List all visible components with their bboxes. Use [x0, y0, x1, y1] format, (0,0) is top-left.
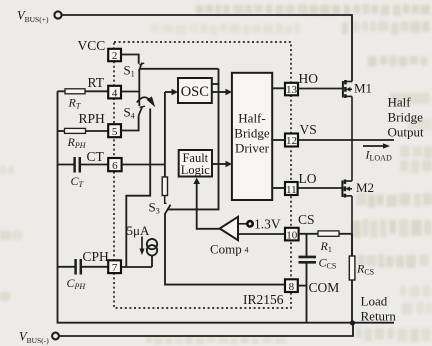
svg-text:5: 5: [112, 126, 118, 138]
pin 8 COM: [285, 279, 298, 293]
pin 7 CPH: [108, 260, 121, 274]
svg-text:8: 8: [289, 281, 295, 293]
svg-text:11: 11: [286, 184, 297, 196]
pin 10 CS: [285, 228, 299, 242]
transistor M2: [342, 140, 352, 256]
wire pin2 to S1: [121, 55, 139, 64]
junction load return: [350, 320, 355, 325]
svg-text:6: 6: [112, 160, 118, 172]
resistor RCS: [349, 234, 355, 323]
svg-text:M1: M1: [354, 81, 372, 96]
wire ILOAD arrow: [363, 143, 390, 148]
svg-text:VCC: VCC: [78, 38, 106, 53]
resistor RPH: [58, 128, 109, 133]
capacitor CCS: [299, 234, 317, 323]
svg-text:Bridge: Bridge: [234, 126, 270, 141]
block Half-Bridge Driver: [232, 73, 272, 200]
node 1.3V reference: [247, 221, 252, 226]
wire pin11 to M2 gate: [298, 187, 342, 189]
svg-text:2: 2: [112, 50, 118, 62]
wire pin13 to M1 gate: [298, 88, 342, 90]
IC boundary dashed box IR2156: [114, 42, 291, 308]
resistor RT: [58, 89, 109, 94]
block OSC oscillator: [178, 78, 212, 103]
wire S1 node to OSC net: [139, 68, 218, 70]
pin 6 CT: [108, 158, 121, 172]
wire pin4 to node: [121, 91, 139, 93]
svg-text:13: 13: [286, 84, 298, 96]
svg-text:Return: Return: [361, 309, 397, 324]
pin 13 HO: [285, 83, 298, 96]
svg-text:CPH: CPH: [83, 249, 110, 264]
wire CT net vertical: [164, 92, 166, 177]
comparator Comp: [210, 217, 281, 257]
pin 4 RT: [108, 86, 121, 100]
svg-text:Comp: Comp: [210, 242, 242, 257]
wire S1 down to pin4 node: [138, 69, 140, 92]
terminal VBUS(+): [54, 11, 61, 18]
block Fault Logic: [179, 150, 212, 177]
pin 11 LO: [285, 182, 298, 196]
wire S3 to right riser: [168, 69, 219, 210]
wire driver HO to pin13: [272, 87, 285, 89]
svg-text:RT: RT: [88, 75, 105, 90]
svg-text:COM: COM: [309, 280, 340, 295]
wire OSC stub to riser: [212, 83, 219, 85]
svg-text:Half-: Half-: [238, 111, 265, 126]
terminal VBUS(-): [52, 333, 59, 340]
svg-text:CS: CS: [298, 212, 315, 227]
svg-text:Half: Half: [388, 95, 412, 110]
wire OSC input arrow: [165, 91, 173, 93]
svg-text:Output: Output: [388, 125, 425, 140]
svg-text:RPH: RPH: [79, 111, 106, 126]
switch S4: [139, 106, 145, 115]
wire pin5 riser to S4: [121, 116, 139, 131]
wire S4 throw B down-jog to pin7 node: [126, 109, 150, 268]
svg-text:5μA: 5μA: [127, 223, 150, 238]
svg-text:Logic: Logic: [181, 163, 211, 177]
wire M2 source to CS node: [351, 196, 353, 256]
pin 2 VCC: [108, 49, 121, 62]
wire driver LO to pin11: [272, 187, 285, 189]
transistor M1: [343, 80, 352, 140]
svg-text:10: 10: [286, 229, 298, 241]
pin 12 VS: [285, 134, 298, 148]
wire M2 drain to VS node: [351, 140, 353, 181]
resistor internal S3 pull: [162, 177, 167, 196]
switch S3: [165, 196, 171, 215]
wire comp lower input to pin10: [238, 233, 285, 235]
svg-text:12: 12: [286, 135, 297, 147]
svg-text:VS: VS: [300, 122, 317, 137]
switch S1: [139, 63, 144, 71]
wire VBUS- bottom rail: [59, 324, 353, 337]
svg-text:CT: CT: [87, 149, 105, 164]
wire pin6 to CT node: [122, 164, 165, 166]
svg-text:LO: LO: [299, 171, 317, 186]
wire M1 source to VS node: [351, 96, 353, 140]
capacitor CPH: [58, 259, 109, 275]
wire fault logic output arrow: [212, 163, 227, 165]
svg-text:4: 4: [112, 87, 118, 99]
wire pin8 COM to ground riser: [298, 285, 307, 287]
svg-text:Load: Load: [361, 294, 388, 309]
resistor R1: [299, 231, 352, 236]
wire VBUS+ rail top: [62, 15, 352, 82]
S4 action curved arrow: [137, 97, 150, 102]
wire S3 blade down to pin8 COM: [165, 214, 285, 285]
wire pin12 to half-bridge output: [298, 139, 394, 141]
wire driver VS to pin12: [272, 139, 285, 141]
svg-text:Bridge: Bridge: [388, 110, 424, 125]
wire OSC output to driver: [212, 91, 227, 93]
svg-text:HO: HO: [299, 71, 319, 86]
svg-text:OSC: OSC: [181, 84, 209, 100]
wire node down to S4 contact: [138, 92, 140, 107]
svg-text:1.3V: 1.3V: [254, 217, 281, 232]
wire comp output to fault logic: [197, 183, 220, 229]
svg-text:IR2156: IR2156: [243, 292, 284, 307]
pin 5 RPH: [108, 124, 121, 138]
svg-text:Driver: Driver: [235, 141, 270, 156]
wire load return rail: [58, 91, 395, 322]
svg-text:7: 7: [112, 262, 118, 274]
current source 5uA: [121, 237, 157, 268]
svg-text:4: 4: [245, 246, 249, 255]
svg-text:M2: M2: [356, 180, 374, 195]
capacitor CT: [58, 157, 109, 173]
